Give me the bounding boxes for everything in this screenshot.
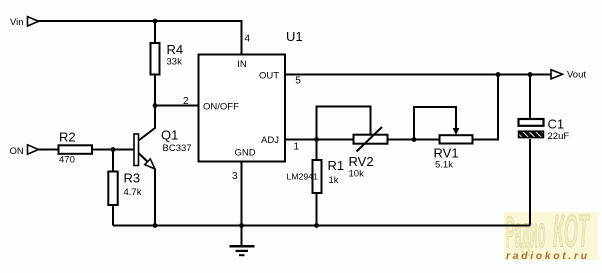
- potentiometer RV2: [349, 127, 388, 180]
- svg-text:IN: IN: [237, 59, 247, 70]
- svg-text:4: 4: [245, 33, 251, 44]
- svg-text:33k: 33k: [167, 57, 183, 68]
- wire ON/OFF pin: [155, 105, 199, 107]
- port Vin: [10, 17, 39, 28]
- svg-text:RV1: RV1: [434, 146, 459, 161]
- op-amp U1 (regulator IC LM2941): [199, 29, 303, 162]
- svg-text:1k: 1k: [329, 175, 339, 186]
- watermark (decorative): [504, 207, 598, 262]
- wire RV2 wiper loop: [317, 107, 371, 140]
- svg-text:C1: C1: [548, 117, 565, 132]
- svg-text:GND: GND: [234, 148, 255, 159]
- svg-text:R4: R4: [167, 42, 184, 57]
- wire R2 to Q1 base: [92, 149, 134, 151]
- svg-text:ADJ: ADJ: [261, 135, 279, 146]
- svg-text:Vin: Vin: [10, 17, 24, 28]
- resistor R1: [313, 140, 345, 226]
- wire C1 top: [529, 75, 531, 119]
- resistor R3: [108, 150, 141, 226]
- svg-text:R2: R2: [59, 130, 76, 145]
- svg-text:LM2941: LM2941: [287, 172, 319, 182]
- port ON: [10, 145, 39, 157]
- svg-text:4.7k: 4.7k: [124, 187, 142, 198]
- svg-text:OUT: OUT: [259, 70, 279, 81]
- junction R1 / rail: [314, 223, 319, 228]
- wire RV2 to RV1: [388, 139, 440, 141]
- wire U1 OUT rail: [285, 74, 551, 76]
- junction RV1 loop: [412, 137, 417, 142]
- svg-text:2: 2: [183, 96, 189, 107]
- junction C1 / OUT rail: [528, 72, 533, 77]
- svg-text:3: 3: [232, 171, 238, 182]
- port Vout: [551, 70, 586, 81]
- wire RV1 to OUT rail: [473, 75, 499, 140]
- junction emitter / rail: [153, 223, 158, 228]
- junction ADJ / R1 / RV2 loop: [314, 137, 319, 142]
- wire Vin rail to U1 pin4: [39, 21, 242, 55]
- wire ON to R2: [39, 149, 59, 151]
- svg-text:470: 470: [59, 155, 75, 166]
- wire C1 bottom to rail: [529, 139, 531, 226]
- junction RV1 / OUT rail: [496, 72, 501, 77]
- transistor Q1: [134, 106, 192, 226]
- svg-text:U1: U1: [286, 29, 303, 44]
- svg-text:10k: 10k: [349, 169, 365, 180]
- junction GND pin / rail: [239, 223, 244, 228]
- wire U1 ADJ: [285, 139, 354, 141]
- resistor R2: [59, 130, 93, 166]
- svg-text:R3: R3: [124, 171, 141, 186]
- svg-text:22uF: 22uF: [548, 131, 570, 142]
- svg-text:5: 5: [295, 75, 301, 86]
- svg-text:5.1k: 5.1k: [435, 160, 453, 171]
- ground symbol: [230, 226, 255, 256]
- svg-text:Vout: Vout: [567, 70, 586, 81]
- svg-text:radiokot.ru: radiokot.ru: [506, 250, 588, 262]
- svg-text:R1: R1: [328, 158, 345, 173]
- svg-text:1: 1: [294, 141, 300, 152]
- svg-text:BC337: BC337: [163, 143, 192, 154]
- resistor R4: [151, 21, 184, 106]
- wire U1 GND pin: [241, 162, 243, 226]
- capacitor C1: [519, 117, 570, 143]
- svg-text:RV2: RV2: [349, 154, 374, 169]
- junction R4 / ON-OFF / Q1 collector: [153, 103, 158, 108]
- potentiometer RV1: [434, 135, 473, 170]
- svg-text:ON: ON: [10, 146, 24, 157]
- wire RV1 wiper loop: [414, 107, 459, 140]
- svg-text:ON/OFF: ON/OFF: [203, 102, 239, 113]
- junction R2 / R3 / base: [111, 147, 116, 152]
- junction Vin / R4: [153, 19, 158, 24]
- bottom ground rail: [113, 225, 530, 227]
- svg-text:Q1: Q1: [161, 128, 178, 143]
